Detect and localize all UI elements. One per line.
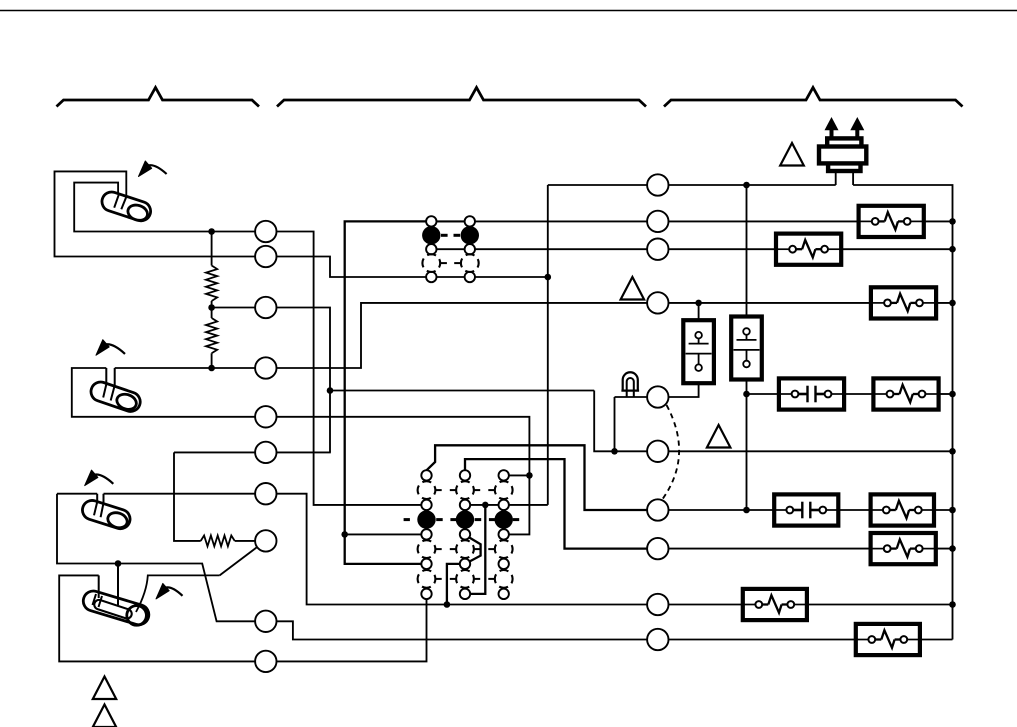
- wire: MS4 loop left side to terminal 10: [59, 575, 266, 661]
- terminal L10: [255, 651, 276, 672]
- wire: mercury switch MS2 top wire to terminal 4: [72, 368, 266, 417]
- wire: R3 right lead to terminal 8: [235, 540, 255, 542]
- wire: K1 bottom junction riser to top wire: [547, 185, 549, 277]
- terminal R6: [647, 441, 668, 462]
- node: junction K1 riser to K2 row: [341, 531, 348, 538]
- node: junction top of resistor R1: [208, 228, 215, 235]
- heat relay HR1: [859, 206, 924, 237]
- pilot lamp DS1: [621, 372, 639, 397]
- terminal R1: [647, 174, 668, 195]
- mercury switch MS3 bulb: [82, 500, 130, 528]
- terminal L7: [255, 483, 276, 504]
- wire: R1 bottom lead to terminal 3: [212, 301, 266, 308]
- node: junction top supply: [743, 182, 750, 189]
- node: junction R2 on terminal-4 wire: [208, 365, 215, 372]
- node: junction fan row: [743, 391, 750, 398]
- rotation arrow A1: [145, 165, 167, 174]
- MS4 electrode marks: [93, 594, 103, 607]
- wire: terminal 4 jog up to right side: [277, 303, 648, 368]
- wire: K1 riser branch to K2 column1 mid: [345, 533, 422, 535]
- note triangle 3 (near fan row): [707, 425, 731, 448]
- wire: HR6 to rail: [936, 548, 953, 550]
- MS4 mercury pool: [127, 606, 147, 626]
- wire: terminal 3 riser: [277, 308, 331, 453]
- brace: thermostat section: [57, 88, 260, 107]
- note triangle 5 (bottom left lower): [93, 705, 116, 727]
- wire: K2 col1 top riser: [427, 445, 648, 510]
- wire: HR7 to rail: [807, 604, 953, 606]
- note triangle 2 (near terminal R): [621, 277, 645, 300]
- wire: right terminal 4 row: [669, 302, 871, 304]
- wire: lamp wire to terminal 5 (right): [615, 396, 648, 398]
- node: rail junction row 4: [949, 300, 956, 307]
- wire: top supply wire: [548, 184, 836, 186]
- mercury switch MS4 bulb outer: [83, 591, 148, 625]
- wire: terminal 9 jog to right terminal 10: [277, 621, 648, 639]
- terminal R7: [647, 499, 668, 520]
- mercury switch MS2 bulb: [91, 382, 140, 411]
- node: rail junction row 6: [949, 448, 956, 455]
- node: junction rail at cool row: [743, 507, 750, 514]
- node: rail junction fan row: [949, 391, 956, 398]
- node: junction K2 column 3 upper: [526, 472, 533, 479]
- wire: right terminal 2 to heater box HR1: [669, 220, 859, 222]
- brace: equipment section: [664, 88, 963, 107]
- rotation arrow A3: [91, 475, 113, 484]
- wire: MS2 electrode 1: [103, 368, 106, 398]
- wire: mercury switch MS1 outer loop to terminal 2: [55, 171, 266, 256]
- terminal R8: [647, 538, 668, 559]
- wire: SW1 to HR4: [844, 393, 874, 395]
- heat relay HR5: [871, 494, 934, 525]
- resistor R1: [206, 266, 217, 302]
- wire: SW2 to HR5: [838, 509, 870, 511]
- wire: pilot net down to terminal 6 wire: [594, 391, 647, 452]
- wire: R2 top lead: [211, 308, 213, 319]
- wire: transformer T1 left leg: [835, 171, 837, 185]
- wire: relay K1 lower row to junction: [431, 276, 548, 278]
- wire: K2 col2 top riser: [465, 459, 647, 548]
- wire: rail PS2 lower: [746, 380, 748, 511]
- MS1 electrode marks: [114, 193, 127, 209]
- wire: terminal 6 row to rail: [669, 450, 953, 452]
- wire: K1 top row left riser: [345, 221, 432, 564]
- MS1 mercury pool: [126, 203, 150, 223]
- wire: riser K2 row2 to supply: [547, 277, 549, 505]
- wire: transformer T1 right leg: [852, 171, 854, 185]
- heat relay HR8: [856, 624, 920, 655]
- wire: R3 left lead from terminal 6 wire: [174, 452, 331, 541]
- wire: R1 top lead: [211, 232, 213, 266]
- cool switch SW2: [774, 494, 838, 525]
- terminal R5: [647, 386, 668, 407]
- MS4 bulb inner wall: [94, 600, 131, 619]
- relay contact K1 (2-pole): [422, 216, 479, 282]
- wire: right terminal 9 to HR7: [669, 604, 743, 606]
- node: rail junction row 2: [949, 218, 956, 225]
- node: junction K1 bottom row: [545, 274, 552, 281]
- MS3 mercury pool: [106, 510, 129, 530]
- terminal R10: [647, 629, 668, 650]
- wire: HR8 to rail corner: [920, 639, 953, 641]
- wire: K2 col2 bottom jog to row2 junction: [470, 505, 485, 594]
- terminal L5: [255, 406, 276, 427]
- wire: right terminal 3 to heater box HR2: [669, 248, 778, 250]
- relay contact stack K2 (3-pole): [404, 470, 520, 599]
- terminal L3: [255, 297, 276, 318]
- wire: MS4 right electrode from terminal 8 branch: [136, 575, 220, 612]
- wire: top supply right of transformer: [853, 185, 952, 640]
- wire: terminal 1 to contact K2 column 1: [277, 232, 422, 505]
- wire: terminal 10 to K2 column 1 bottom: [277, 599, 427, 661]
- wire: junction riser to K2 column 2: [447, 564, 460, 605]
- wire: K2 row2 link col2-col3: [470, 504, 548, 506]
- wire: HR2 to right rail: [840, 248, 952, 250]
- wire: rail PS2 upper: [746, 185, 748, 317]
- heat relay HR6: [871, 533, 936, 564]
- node: rail junction row 9: [949, 601, 956, 608]
- node: junction R1/R2 terminal 3: [208, 304, 215, 311]
- wire: MS2 electrode 2: [111, 368, 115, 401]
- resistor R2: [206, 318, 217, 353]
- heat relay HR7: [743, 589, 807, 620]
- wire: mercury switch MS1 inner loop to terminal 1: [74, 183, 266, 232]
- pressure switch PS1: [683, 320, 714, 383]
- wire: MS3 electrode 2: [101, 494, 104, 518]
- node: rail junction cool row: [949, 507, 956, 514]
- wire: junction to pilot lamp net: [330, 390, 594, 392]
- terminal L2: [255, 246, 276, 267]
- node: junction on terminal-3 riser: [327, 387, 334, 394]
- mercury switch MS1 bulb: [102, 192, 151, 221]
- node: junction MS4 center electrode: [115, 560, 122, 567]
- note triangle 4 (bottom left upper): [93, 677, 116, 700]
- node: junction pressure switch PS1 stem: [695, 300, 702, 307]
- node: rail junction row 3: [949, 246, 956, 253]
- MS2 mercury pool: [115, 392, 139, 412]
- brace: subbase / wiring section: [277, 88, 646, 107]
- wire: terminal 2 jog to relay K1 lower contacts: [277, 257, 432, 278]
- wire: HR3 to right rail: [936, 302, 952, 304]
- node: rail junction row 8: [949, 545, 956, 552]
- terminal R3: [647, 239, 668, 260]
- wire: right terminal 8 to HR6: [669, 548, 871, 550]
- heat relay HR2: [776, 234, 841, 265]
- wire: HR1 to right rail: [924, 220, 953, 222]
- fan switch SW1: [779, 378, 844, 409]
- note triangle 1 (near transformer): [780, 143, 804, 166]
- wire: MS3 loop left side: [57, 494, 255, 622]
- terminal R9: [647, 594, 668, 615]
- wire: MS3 electrode 1: [94, 494, 97, 516]
- wire: terminal 5 (left) riser to contact K2 column 3: [277, 417, 530, 535]
- wire: K1 top row to right terminal 2: [431, 220, 647, 222]
- terminal L1: [255, 221, 276, 242]
- wire: MS4 center electrode: [117, 564, 119, 606]
- rotation arrow A4: [163, 587, 183, 595]
- node: junction K2 row2: [482, 502, 489, 509]
- heat relay HR3: [871, 287, 936, 318]
- wire: right terminal 10 to HR8: [669, 639, 856, 641]
- wire: R2 bottom lead: [211, 353, 213, 368]
- wire: mercury switch MS3 top wire to terminal 7: [57, 493, 97, 495]
- wire: MS4 left electrode: [98, 575, 100, 598]
- pressure switch PS2: [731, 317, 762, 380]
- wire: terminal 7 riser down to bottom row: [277, 494, 648, 605]
- terminal L4: [255, 357, 276, 378]
- wire: diagonal terminal 8 to MS4 branch: [220, 547, 258, 576]
- top border line: [0, 10, 1017, 12]
- node: junction pilot lamp branch: [611, 448, 618, 455]
- wire: K2 col2 bypass jog: [469, 538, 480, 562]
- wire: K1 middle row to right terminal 3: [431, 248, 647, 250]
- dashed link terminal5-terminal7: [662, 405, 680, 501]
- rotation arrow A2: [103, 344, 126, 354]
- wire: PS1 top stem: [698, 303, 700, 320]
- terminal L8: [255, 530, 276, 551]
- wire: MS2 top wire right part: [115, 367, 266, 369]
- heat relay HR4: [873, 378, 938, 409]
- terminal L6: [255, 442, 276, 463]
- transformer T1 with line-voltage arrows: [819, 117, 866, 171]
- wire: terminal 6 wire to left: [174, 451, 255, 453]
- wire: HR5 to rail: [934, 509, 953, 511]
- wire: K2 col3 top terminal link: [509, 474, 529, 476]
- resistor R3: [201, 536, 235, 547]
- terminal R2: [647, 211, 668, 232]
- wire: PS1 bottom stem to terminal 5: [669, 383, 699, 397]
- wire: fan row to switch box SW1: [747, 393, 780, 395]
- wire: pilot lamp leg: [614, 397, 616, 451]
- terminal R4: [647, 292, 668, 313]
- terminal L9: [255, 611, 276, 632]
- wire: right terminal 7 row: [669, 509, 775, 511]
- wire: HR4 to rail: [938, 393, 952, 395]
- node: junction heat anticipator row: [444, 601, 451, 608]
- wire: MS3 top wire right part: [104, 493, 266, 495]
